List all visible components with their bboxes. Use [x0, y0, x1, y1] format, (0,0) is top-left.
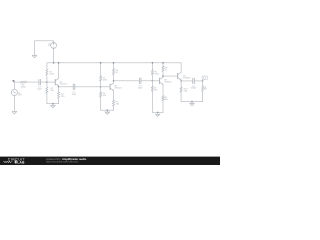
node stage3 base — [152, 80, 154, 82]
resistor R7e (Q2 emitter) — [112, 90, 114, 110]
capacitor C1 — [39, 79, 41, 84]
node Q1 emitter out — [58, 86, 60, 87]
resistor R1 (divider top) — [46, 63, 48, 82]
wire R6 to C1 — [27, 81, 39, 83]
node stage3 bottom — [157, 112, 159, 114]
svg-text:100: 100 — [116, 102, 120, 105]
ground (stage1) — [51, 104, 55, 108]
mic flag — [12, 80, 14, 82]
node stage2 base — [100, 86, 102, 88]
svg-text:100k: 100k — [154, 72, 159, 75]
svg-text:100Ω: 100Ω — [20, 86, 25, 89]
svg-text:10µF: 10µF — [138, 87, 144, 90]
transistor Q4 — [178, 73, 181, 80]
node Q3 collector tap — [162, 75, 164, 77]
resistor R3 (stage2 divider top) — [100, 63, 102, 87]
ground (V1) — [32, 55, 36, 58]
node R8 rail — [162, 62, 164, 64]
resistor R6 (input, horizontal) — [20, 81, 26, 83]
capacitor C2 — [73, 84, 75, 89]
node Q4 emitter out — [180, 80, 182, 81]
wire output bottom — [181, 101, 203, 103]
transistor Q3 — [152, 77, 163, 84]
svg-text:10k: 10k — [154, 88, 158, 91]
wire speaker stem — [202, 79, 204, 81]
node Q1 collector rail — [58, 62, 60, 64]
wire stage3 bottom — [152, 111, 163, 113]
node stage1 base — [46, 81, 48, 83]
svg-text:1k: 1k — [115, 71, 118, 74]
wire C1 to node — [40, 81, 47, 83]
transistor Q2 — [101, 83, 114, 90]
wire V1 top loop — [35, 41, 54, 56]
resistor R10 (Q4 emitter) — [180, 81, 182, 102]
ground (V2) — [12, 111, 16, 114]
wire C2 to stage2 — [75, 86, 101, 88]
transistor Q1 — [47, 79, 59, 86]
resistor R8d (stage3 divider top) — [151, 63, 153, 81]
wire Q1 collector to rail — [58, 63, 60, 79]
svg-text:2N2222: 2N2222 — [60, 82, 68, 85]
wire Q3 tap to Q4 — [163, 75, 178, 77]
node output bottom — [191, 101, 193, 103]
svg-text:1mV: 1mV — [18, 94, 23, 97]
resistor R8 (Q3 collector) — [162, 63, 164, 77]
wire stage2 bottom — [101, 109, 114, 111]
logo zigzag — [4, 161, 13, 163]
node load top — [202, 80, 204, 82]
svg-text:10µF: 10µF — [72, 93, 78, 96]
wire V2 top — [14, 82, 20, 89]
resistor R5 (Q2 collector) — [112, 63, 114, 81]
svg-text:2N2222: 2N2222 — [114, 86, 122, 89]
node R5 rail — [113, 62, 115, 64]
node R3 rail — [100, 62, 102, 64]
svg-text:8Ω: 8Ω — [204, 88, 207, 91]
ground (output) — [190, 102, 194, 106]
wire top rail — [47, 62, 181, 64]
ground (stage3) — [156, 112, 160, 116]
speaker icon — [202, 76, 207, 79]
svg-text:10k: 10k — [50, 89, 54, 92]
node R8d rail — [152, 62, 154, 64]
svg-text:1k: 1k — [165, 68, 168, 71]
wire Q4 collector (rail right end) — [180, 63, 182, 73]
wire V2 bottom — [13, 96, 15, 112]
svg-text:LAB: LAB — [17, 160, 25, 164]
node stage2 bottom — [107, 109, 109, 111]
voltage source V1 — [51, 42, 57, 48]
wire C3 to stage3 — [141, 80, 153, 82]
svg-text:10µF: 10µF — [37, 88, 43, 91]
svg-text:100k: 100k — [49, 73, 54, 76]
svg-text:2N2222: 2N2222 — [164, 81, 172, 84]
wire C4 to load — [194, 80, 202, 82]
svg-text:100k: 100k — [103, 78, 108, 81]
capacitor C4 — [193, 78, 195, 83]
signal source V2 — [11, 89, 17, 95]
node Q2 collector tap — [113, 80, 115, 82]
svg-text:10k: 10k — [103, 94, 107, 97]
svg-text:100µF: 100µF — [191, 87, 198, 90]
wire Q2 collector — [113, 81, 115, 83]
resistor R2b (divider bottom) — [46, 82, 48, 104]
resistor R9d (stage3 divider bottom) — [151, 81, 153, 113]
svg-text:100: 100 — [61, 95, 65, 98]
wire V1 to rail — [53, 48, 55, 62]
wire Q4 out — [181, 80, 193, 82]
node V1-rail — [53, 62, 55, 64]
node stage1 bottom — [52, 103, 54, 105]
resistor RL (load) — [202, 81, 204, 102]
wire Q1 out to C2 — [59, 86, 74, 88]
capacitor C3 — [139, 78, 141, 83]
wire Q2 tap to C3 — [114, 80, 140, 82]
resistor R9 (Q3 emitter) — [162, 84, 164, 112]
resistor R2 (Q1 emitter) — [57, 87, 59, 104]
svg-text:http://circuitlab.com/c/9hux4x: http://circuitlab.com/c/9hux4x — [46, 161, 79, 164]
ground (stage2) — [105, 110, 109, 114]
resistor R4 (stage2 divider bottom) — [100, 87, 102, 110]
footer bar — [0, 157, 220, 165]
wire stage1 bottom — [47, 103, 59, 105]
logo LAB — [15, 161, 17, 164]
svg-text:2N3055: 2N3055 — [183, 76, 191, 79]
svg-text:100: 100 — [164, 98, 168, 101]
